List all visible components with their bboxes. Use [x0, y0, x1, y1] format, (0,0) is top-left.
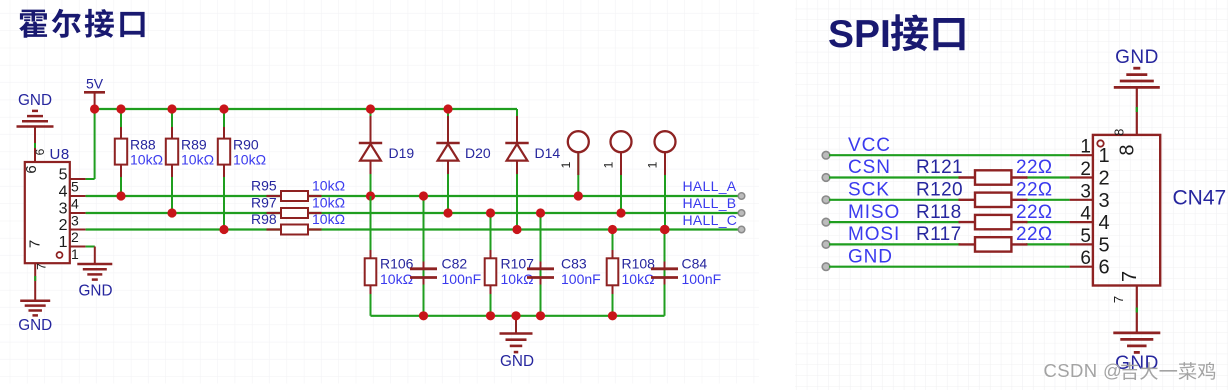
- svg-text:CSN: CSN: [848, 157, 891, 178]
- svg-text:1: 1: [1080, 137, 1091, 158]
- svg-text:MISO: MISO: [848, 202, 900, 223]
- ground GND (below U8 pin7): [18, 263, 52, 334]
- wire U8 pin5 to 5V rail: [86, 178, 95, 180]
- svg-text:1: 1: [59, 234, 68, 251]
- resistor R90 10k pull-up: [218, 109, 266, 230]
- svg-text:R90: R90: [233, 137, 259, 153]
- svg-text:C84: C84: [682, 256, 708, 272]
- svg-text:100nF: 100nF: [682, 271, 722, 287]
- svg-text:3: 3: [1080, 181, 1091, 202]
- svg-text:R117: R117: [916, 224, 962, 245]
- node D19 rail junction: [366, 104, 375, 113]
- svg-text:5: 5: [71, 179, 79, 195]
- node GND bottom rail junction: [511, 311, 520, 320]
- connector U8: [23, 146, 86, 270]
- resistor R106 10kΩ: [365, 196, 414, 316]
- node R88 line junction: [116, 191, 125, 200]
- svg-text:10kΩ: 10kΩ: [312, 178, 345, 194]
- svg-text:22Ω: 22Ω: [1016, 202, 1053, 223]
- node D20 rail junction: [443, 104, 452, 113]
- svg-text:3: 3: [1099, 190, 1110, 212]
- node R90 top rail junction: [219, 104, 228, 113]
- svg-text:10kΩ: 10kΩ: [312, 195, 345, 211]
- svg-text:U8: U8: [50, 146, 70, 163]
- ground GND (bottom of CN47): [1113, 333, 1160, 374]
- wire MOSI: [829, 243, 960, 245]
- title SPI接口 (SPI interface): [828, 13, 965, 56]
- pin 8 wire to GND: [1136, 87, 1138, 134]
- wire end marker: [822, 196, 830, 204]
- node R89 top rail junction: [167, 104, 176, 113]
- svg-text:4: 4: [71, 196, 79, 212]
- wire HALL_B line: [86, 212, 742, 214]
- svg-text:1: 1: [559, 161, 573, 168]
- svg-text:1: 1: [71, 246, 79, 262]
- svg-text:100nF: 100nF: [561, 271, 601, 287]
- diode D14: [505, 109, 560, 230]
- svg-text:5: 5: [59, 167, 68, 184]
- svg-text:GND: GND: [1115, 47, 1159, 68]
- wire SCK: [829, 199, 960, 201]
- node R108 bottom rail junction: [608, 311, 617, 320]
- node 5V rail junction: [90, 104, 99, 113]
- wire MISO: [829, 221, 960, 223]
- node pin circle junction: [660, 225, 669, 234]
- svg-text:4: 4: [1099, 212, 1110, 234]
- svg-text:SCK: SCK: [848, 180, 890, 201]
- svg-text:7: 7: [35, 263, 49, 270]
- node C82 bottom rail junction: [419, 311, 428, 320]
- svg-text:100nF: 100nF: [442, 271, 482, 287]
- svg-text:GND: GND: [18, 92, 52, 109]
- svg-text:22Ω: 22Ω: [1016, 224, 1053, 245]
- svg-text:CSDN @: CSDN @: [1044, 360, 1123, 381]
- svg-text:C83: C83: [561, 256, 587, 272]
- svg-text:R118: R118: [916, 202, 962, 223]
- pin 7 wire to GND: [1136, 286, 1138, 333]
- svg-text:8: 8: [1112, 129, 1127, 136]
- svg-text:7: 7: [27, 240, 44, 248]
- svg-text:R97: R97: [251, 195, 277, 211]
- node R107 line junction: [486, 208, 495, 217]
- svg-text:4: 4: [59, 184, 68, 201]
- svg-text:GND: GND: [18, 317, 52, 334]
- resistor R120 22Ω: [916, 180, 1053, 208]
- svg-text:10kΩ: 10kΩ: [130, 152, 163, 168]
- svg-text:CN47: CN47: [1173, 187, 1227, 210]
- wire HALL_C line: [86, 228, 742, 230]
- ground GND (U8 pin1): [77, 247, 112, 300]
- svg-text:R108: R108: [622, 256, 656, 272]
- wire HALL_A line: [86, 195, 742, 197]
- wire end marker: [822, 241, 830, 249]
- svg-text:10kΩ: 10kΩ: [233, 152, 266, 168]
- node R89 line junction: [167, 208, 176, 217]
- svg-text:2: 2: [1080, 159, 1091, 180]
- svg-text:1: 1: [646, 161, 660, 168]
- wire U8 pin1 to GND: [86, 246, 95, 248]
- node pin circle junction: [616, 208, 625, 217]
- ground GND (bottom rail): [500, 316, 535, 370]
- svg-text:6: 6: [1080, 248, 1091, 269]
- capacitor C83 100nF: [527, 213, 601, 316]
- wire 5V top rail: [95, 108, 517, 110]
- svg-text:R88: R88: [130, 137, 156, 153]
- wire end marker: [822, 263, 830, 271]
- wire CSN: [829, 176, 960, 178]
- svg-text:5V: 5V: [86, 76, 104, 92]
- svg-text:2: 2: [1099, 168, 1110, 190]
- svg-text:6: 6: [23, 165, 40, 173]
- wire end marker: [738, 226, 745, 233]
- resistor R117 22Ω: [916, 224, 1053, 251]
- svg-text:10kΩ: 10kΩ: [312, 211, 345, 227]
- svg-text:GND: GND: [79, 283, 113, 300]
- resistor R118 22Ω: [916, 202, 1053, 229]
- node D19 line junction: [366, 191, 375, 200]
- wire end marker: [822, 151, 830, 159]
- svg-text:3: 3: [71, 213, 79, 229]
- diode D20: [436, 109, 491, 213]
- svg-text:5: 5: [1099, 234, 1110, 256]
- svg-text:MOSI: MOSI: [848, 224, 900, 245]
- resistor R97 10k series: [251, 195, 345, 219]
- svg-text:1: 1: [602, 161, 616, 168]
- pin 1 stub: [1070, 154, 1093, 156]
- svg-text:10kΩ: 10kΩ: [380, 271, 413, 287]
- connector CN47: [1093, 129, 1226, 303]
- node C82 line junction: [419, 191, 428, 200]
- svg-text:10kΩ: 10kΩ: [181, 152, 214, 168]
- wire U8 pin6 to GND: [34, 143, 36, 162]
- resistor R98 10k series: [251, 211, 345, 235]
- svg-text:GND: GND: [848, 246, 893, 267]
- node D14 line junction: [512, 225, 521, 234]
- pin 2 stub: [1070, 176, 1093, 178]
- svg-text:HALL_A: HALL_A: [683, 178, 737, 194]
- power symbol 5V: [84, 76, 105, 110]
- svg-text:SPI: SPI: [828, 13, 891, 56]
- wire end marker: [738, 193, 745, 200]
- wire bottom rail: [371, 315, 665, 317]
- svg-text:1: 1: [1099, 145, 1110, 167]
- svg-text:HALL_C: HALL_C: [683, 212, 738, 228]
- svg-text:VCC: VCC: [848, 135, 891, 156]
- pin 6 stub: [1070, 266, 1093, 268]
- ground GND (top of CN47): [1114, 47, 1160, 87]
- svg-text:R89: R89: [181, 137, 207, 153]
- pin 5 stub: [1070, 243, 1093, 245]
- node R88 top rail junction: [116, 104, 125, 113]
- resistor R121 22Ω: [916, 157, 1053, 185]
- svg-text:6: 6: [1099, 257, 1110, 279]
- svg-text:R95: R95: [251, 178, 277, 194]
- svg-text:HALL_B: HALL_B: [683, 195, 737, 211]
- svg-text:D20: D20: [465, 145, 491, 161]
- svg-text:D19: D19: [389, 145, 415, 161]
- node C83 bottom rail junction: [536, 311, 545, 320]
- pin 3 stub: [1070, 199, 1093, 201]
- svg-text:7: 7: [1119, 271, 1141, 282]
- wire GND: [829, 266, 1070, 268]
- svg-text:2: 2: [71, 229, 79, 245]
- connector pin circle (pin 1): [602, 131, 632, 213]
- connector pin circle (pin 1): [559, 131, 589, 196]
- svg-text:D14: D14: [535, 145, 561, 161]
- wire VCC: [829, 154, 1070, 156]
- node D20 line junction: [443, 208, 452, 217]
- wire end marker: [822, 218, 830, 226]
- resistor R89 10k pull-up: [166, 109, 214, 213]
- node R108 line junction: [608, 225, 617, 234]
- CN47 pin1 marker circle: [1097, 140, 1103, 146]
- resistor R108 10kΩ: [607, 230, 655, 316]
- node R90 line junction: [219, 225, 228, 234]
- svg-text:10kΩ: 10kΩ: [501, 271, 534, 287]
- capacitor C82 100nF: [410, 196, 481, 316]
- node pin circle junction: [574, 191, 583, 200]
- pin 4 stub: [1070, 221, 1093, 223]
- resistor R88 10k pull-up: [115, 109, 163, 196]
- svg-text:6: 6: [33, 148, 47, 155]
- resistor R95 10k series: [251, 178, 345, 202]
- svg-text:C82: C82: [442, 256, 468, 272]
- svg-text:R120: R120: [916, 180, 963, 201]
- svg-text:R98: R98: [251, 211, 277, 227]
- svg-text:5: 5: [1080, 226, 1091, 247]
- svg-text:22Ω: 22Ω: [1016, 180, 1053, 201]
- capacitor C84 100nF: [651, 230, 721, 316]
- svg-text:4: 4: [1080, 204, 1091, 225]
- wire end marker: [822, 174, 830, 182]
- wire end marker: [738, 210, 745, 217]
- svg-text:GND: GND: [500, 353, 534, 370]
- svg-text:R121: R121: [916, 157, 963, 178]
- node R107 bottom rail junction: [486, 311, 495, 320]
- node C83 line junction: [536, 208, 545, 217]
- svg-text:10kΩ: 10kΩ: [622, 271, 655, 287]
- diode D19: [359, 109, 415, 196]
- svg-text:3: 3: [59, 201, 68, 218]
- svg-text:22Ω: 22Ω: [1016, 157, 1053, 178]
- title 霍尔接口 (Hall interface): [19, 9, 144, 38]
- svg-text:R106: R106: [380, 256, 414, 272]
- ground GND (above U8): [17, 92, 54, 145]
- U8 pin1 marker circle: [57, 252, 63, 258]
- connector pin circle (pin 1): [646, 131, 676, 229]
- svg-text:7: 7: [1111, 296, 1126, 303]
- node C84 line junction: [660, 225, 669, 234]
- resistor R107 10kΩ: [485, 213, 534, 316]
- svg-text:8: 8: [1117, 144, 1139, 155]
- watermark CSDN @吉大一菜鸡: [1044, 360, 1216, 381]
- svg-text:2: 2: [59, 217, 68, 234]
